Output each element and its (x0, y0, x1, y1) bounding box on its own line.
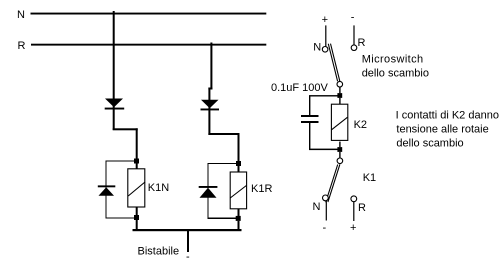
label N (top microswitch) (313, 42, 321, 54)
node N label (17, 9, 25, 21)
wire to K1N coil top (136, 164, 138, 170)
diode D2 series (right, pointing down) (201, 100, 220, 111)
svg-text:dello scambio: dello scambio (362, 68, 429, 80)
node R label (18, 40, 26, 52)
wire K2 coil bottom (339, 142, 340, 148)
label minus terminal (top microswitch) (351, 12, 355, 24)
svg-text:I contatti di K2 danno: I contatti di K2 danno (396, 110, 499, 122)
wire flyback loop K1N (106, 161, 134, 218)
junction square K1N bottom (134, 215, 139, 220)
wire right branch vertical to diode (208, 88, 210, 136)
svg-text:K1: K1 (363, 172, 376, 184)
svg-text:N: N (17, 9, 25, 21)
wire flyback loop K1R (208, 164, 236, 219)
svg-text:K2: K2 (354, 119, 367, 131)
label minus terminal (K1 switch) (323, 222, 327, 234)
svg-text:+: + (322, 14, 328, 26)
wire R terminal stub (K1 switch) (353, 202, 354, 221)
wire pole to junction (339, 87, 340, 93)
svg-text:R: R (358, 37, 366, 49)
diode D1 series (left, pointing down) (105, 99, 125, 110)
label Microswitch dello scambio (362, 54, 429, 80)
svg-text:R: R (358, 202, 366, 214)
diode D4 flyback (right, pointing up) (199, 186, 218, 198)
label Bistabile (138, 246, 180, 258)
svg-text:+: + (350, 222, 356, 234)
contact circle N (K1 switch) (323, 195, 329, 201)
label R (K1 switch) (358, 202, 366, 214)
svg-text:R: R (18, 40, 26, 52)
relay coil K1R (230, 172, 246, 209)
wire K1N to bottom bus (136, 220, 138, 230)
label 0.1uF 100V (271, 82, 329, 94)
svg-text:0.1uF 100V: 0.1uF 100V (271, 82, 329, 94)
svg-text:-: - (186, 251, 190, 263)
capacitor C1 plates (301, 115, 319, 123)
wire K1R to bottom bus (238, 221, 240, 230)
label minus of bistabile tap (186, 251, 190, 263)
wire capacitor bottom horizontal (309, 149, 338, 151)
contact circle R (top microswitch) (351, 45, 357, 51)
relay coil K2 (331, 104, 347, 140)
svg-text:-: - (323, 222, 327, 234)
wire capacitor top horizontal (309, 95, 338, 96)
label note I contatti di K2 (396, 110, 499, 150)
svg-text:Bistabile: Bistabile (138, 246, 180, 258)
junction square K2 bottom (337, 147, 342, 152)
label K1N (148, 182, 169, 194)
wire minus terminal stub (353, 25, 354, 45)
wire plus terminal stub (325, 25, 326, 46)
wire bistabile center tap (187, 231, 189, 252)
wire left branch vertical from N bus (113, 11, 115, 130)
wire capacitor top lead (309, 96, 310, 115)
switch lever (K1 switch) (326, 164, 340, 202)
label plus terminal (top microswitch) (322, 14, 328, 26)
wire K1R coil bottom (238, 209, 240, 216)
junction square K2 top (337, 93, 342, 98)
relay coil K1N (128, 169, 145, 207)
wire right branch vertical to K1R (238, 133, 240, 163)
wire junction to K1 pole (339, 152, 340, 158)
svg-text:-: - (351, 12, 355, 24)
wire right branch jog (208, 88, 212, 90)
wire left branch vertical to K1N (136, 128, 138, 160)
svg-text:N: N (313, 42, 321, 54)
contact circle N (top microswitch) (322, 47, 328, 53)
label plus terminal (K1 switch) (350, 222, 356, 234)
wire right branch horizontal (208, 133, 239, 135)
contact circle pole (K1 switch) (337, 158, 343, 164)
wire N bus line (31, 13, 267, 15)
label K1 (363, 172, 376, 184)
svg-text:tensione alle rotaie: tensione alle rotaie (396, 124, 488, 136)
wire N terminal stub (K1 switch) (326, 201, 327, 221)
svg-text:K1R: K1R (251, 183, 272, 195)
wire capacitor bottom lead (309, 123, 310, 150)
label N (K1 switch) (313, 201, 321, 213)
wire junction to K2 coil top (339, 98, 340, 104)
label K2 (354, 119, 367, 131)
wire right branch vertical from R bus (210, 43, 212, 90)
diode D3 flyback (left, pointing up) (98, 185, 116, 195)
contact circle R (K1 switch) (351, 196, 357, 202)
svg-text:N: N (313, 201, 321, 213)
svg-text:Microswitch: Microswitch (362, 54, 424, 66)
wire K1N coil bottom (136, 208, 138, 216)
svg-text:dello scambio: dello scambio (396, 138, 463, 150)
contact circle pole (top microswitch) (337, 81, 343, 87)
wire left branch horizontal jog (113, 128, 138, 130)
label K1R (251, 183, 272, 195)
wire to K1R coil top (238, 166, 240, 172)
junction square K1N top (134, 159, 139, 164)
junction square K1R top (236, 161, 241, 166)
wire bottom bus (133, 229, 242, 231)
junction square K1R bottom (236, 216, 241, 221)
label R (top microswitch) (358, 37, 366, 49)
wire R bus line (31, 44, 266, 46)
switch lever (top microswitch) (328, 44, 340, 82)
svg-text:K1N: K1N (148, 182, 169, 194)
